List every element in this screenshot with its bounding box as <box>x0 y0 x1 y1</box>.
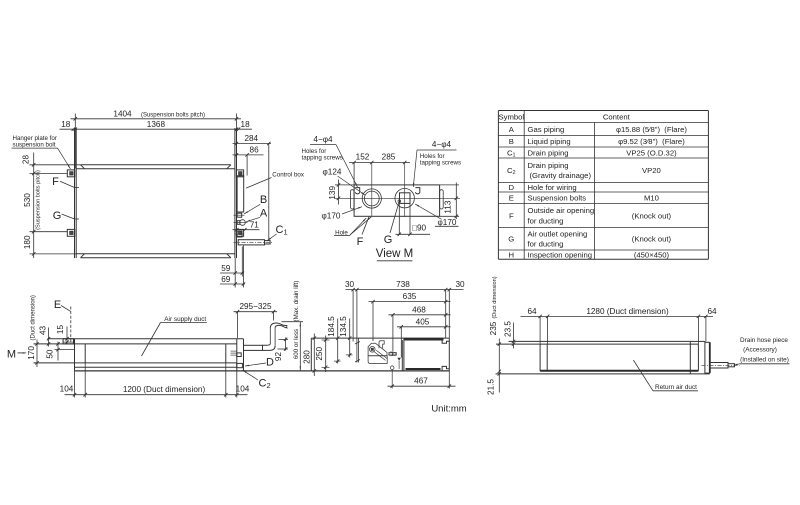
svg-text:23.5: 23.5 <box>504 321 513 337</box>
dim 30 738 30 top <box>346 289 464 291</box>
drain outlet circle bottom <box>390 366 394 370</box>
svg-text:468: 468 <box>412 305 426 314</box>
dim 92 <box>285 338 287 351</box>
svg-text:F: F <box>357 236 364 248</box>
svg-text:Liquid piping: Liquid piping <box>528 137 571 146</box>
dim 284 <box>233 143 272 145</box>
dim 152 285 <box>349 162 410 164</box>
dim 64 1280 64 <box>521 315 714 317</box>
svg-text:Control box: Control box <box>272 172 305 179</box>
dim 170 <box>36 340 38 368</box>
svg-text:284: 284 <box>244 134 258 143</box>
svg-text:28: 28 <box>22 155 31 165</box>
vertical center line G <box>404 163 406 218</box>
hanger plate top-right <box>236 170 243 177</box>
svg-text:φ124: φ124 <box>323 168 342 177</box>
right view end section <box>689 341 691 374</box>
dim 71 <box>233 229 260 231</box>
drain pipe C1 <box>238 240 264 245</box>
svg-text:A: A <box>260 207 268 219</box>
pipe fittings circles <box>389 352 393 356</box>
suspension bolt E dashed <box>70 307 72 344</box>
svg-text:G: G <box>53 210 62 222</box>
svg-text:(Max. drain lift): (Max. drain lift) <box>293 281 300 322</box>
svg-text:Hole for wiring: Hole for wiring <box>528 183 577 192</box>
dim 43 <box>48 328 50 347</box>
svg-text:(Accessory): (Accessory) <box>743 347 777 354</box>
symbol content table <box>498 110 708 112</box>
svg-text:φ9.52 (3∕8") (Flare): φ9.52 (3∕8") (Flare) <box>618 137 685 146</box>
svg-text:4−φ4: 4−φ4 <box>432 140 452 149</box>
fitting below A <box>237 231 242 237</box>
svg-text:64: 64 <box>707 307 717 316</box>
svg-text:235: 235 <box>489 321 498 335</box>
drain hose vertical pipe <box>269 328 271 344</box>
dim 113 <box>455 183 457 220</box>
end view outline <box>310 338 312 371</box>
diagonal drain pipe <box>376 350 387 359</box>
svg-text:134.5: 134.5 <box>339 316 348 337</box>
svg-text:Content: Content <box>603 113 631 122</box>
svg-text:Return air duct: Return air duct <box>655 384 697 391</box>
svg-text:E: E <box>509 194 514 203</box>
dim 280 <box>313 334 315 377</box>
dim 295-325 <box>234 311 278 313</box>
svg-text:Drain hose piece: Drain hose piece <box>740 337 788 344</box>
front view left edge <box>74 339 76 371</box>
svg-text:for ducting: for ducting <box>528 240 564 249</box>
svg-text:E: E <box>54 299 61 311</box>
svg-text:(Knock out): (Knock out) <box>632 235 672 244</box>
svg-text:280: 280 <box>303 350 312 364</box>
svg-text:43: 43 <box>39 326 48 336</box>
svg-text:64: 64 <box>527 307 537 316</box>
svg-text:G: G <box>508 235 514 244</box>
dim 184.5 <box>337 319 339 364</box>
air supply duct opening bottom <box>34 362 237 364</box>
svg-text:(Duct dimension): (Duct dimension) <box>492 276 498 318</box>
right view unit bottom line <box>496 373 710 375</box>
dim 139 <box>338 180 340 205</box>
pipe A gas <box>240 220 246 226</box>
svg-text:Symbol: Symbol <box>498 113 524 122</box>
svg-text:(Suspension bolts pitch): (Suspension bolts pitch) <box>35 170 41 230</box>
svg-text:tapping screws: tapping screws <box>302 154 343 161</box>
svg-text:tapping screws: tapping screws <box>420 159 461 166</box>
svg-text:180: 180 <box>23 235 32 249</box>
dim 1404 suspension bolts pitch <box>71 118 242 120</box>
dim 15 <box>66 327 68 345</box>
svg-text:1200 (Duct dimension): 1200 (Duct dimension) <box>123 385 206 394</box>
dim 18 1368 18 <box>60 128 253 130</box>
dim 104 1200 104 bottom <box>65 394 248 396</box>
svg-text:B: B <box>509 137 514 146</box>
end view right bracket bottom <box>442 366 449 371</box>
svg-text:30: 30 <box>345 280 355 289</box>
center line through knockouts <box>335 197 460 199</box>
svg-text:285: 285 <box>382 153 396 162</box>
svg-text:170: 170 <box>27 346 36 360</box>
right slot bracket <box>440 190 444 209</box>
svg-text:M10: M10 <box>644 194 659 203</box>
shared bottom line of unit <box>75 370 450 372</box>
drain pump assembly <box>368 343 387 356</box>
front view unit top line <box>48 338 244 340</box>
svg-text:□90: □90 <box>412 224 426 233</box>
svg-text:69: 69 <box>221 275 231 284</box>
svg-text:D: D <box>509 183 515 192</box>
svg-text:104: 104 <box>236 385 250 394</box>
svg-text:Gas piping: Gas piping <box>528 125 565 134</box>
connections bay right edge <box>243 339 245 371</box>
svg-text:50: 50 <box>46 349 55 359</box>
svg-text:21.5: 21.5 <box>487 379 496 395</box>
svg-text:Air outlet opening: Air outlet opening <box>528 229 588 238</box>
svg-text:15: 15 <box>56 325 65 335</box>
hanger plate bottom-right <box>236 229 243 236</box>
body right edge <box>234 128 236 258</box>
svg-text:φ15.88 (5∕8") (Flare): φ15.88 (5∕8") (Flare) <box>616 125 687 134</box>
svg-text:18: 18 <box>241 120 251 129</box>
svg-text:for ducting: for ducting <box>528 216 564 225</box>
svg-text:184.5: 184.5 <box>327 316 336 337</box>
svg-text:152: 152 <box>356 153 370 162</box>
svg-text:A: A <box>509 125 515 134</box>
pump flag fitting <box>379 341 384 349</box>
front view right edge <box>236 339 238 371</box>
vertical center line F <box>371 163 373 217</box>
svg-text:4−φ4: 4−φ4 <box>313 135 333 144</box>
svg-text:Unit:mm: Unit:mm <box>431 404 466 415</box>
svg-text:φ170: φ170 <box>438 218 457 227</box>
tapping screw hook near F <box>355 188 359 194</box>
front view flange line / duct top <box>34 343 237 345</box>
left slot bracket <box>351 190 355 209</box>
return duct thick bottom <box>540 370 698 372</box>
svg-text:738: 738 <box>396 280 410 289</box>
knockout G circle phi170 and square 90 <box>395 189 414 208</box>
svg-text:M: M <box>7 349 16 361</box>
valve triangle <box>397 358 401 361</box>
svg-text:250: 250 <box>315 347 324 361</box>
drain hose top curve <box>270 323 287 328</box>
svg-text:1280 (Duct dimension): 1280 (Duct dimension) <box>586 307 669 316</box>
svg-text:139: 139 <box>328 186 337 200</box>
svg-text:530: 530 <box>23 193 32 207</box>
svg-text:D: D <box>266 357 274 369</box>
svg-text:View M: View M <box>376 248 414 260</box>
svg-text:VP25 (O.D.32): VP25 (O.D.32) <box>626 149 677 158</box>
svg-text:H: H <box>509 251 515 260</box>
svg-text:(Duct dimension): (Duct dimension) <box>31 295 37 340</box>
svg-text:104: 104 <box>60 385 74 394</box>
svg-text:Outside air opening: Outside air opening <box>528 206 595 215</box>
dim 405 <box>397 326 451 328</box>
left dim column 28 530 180 <box>33 153 35 259</box>
svg-text:405: 405 <box>416 317 430 326</box>
return air duct box <box>539 344 541 371</box>
svg-text:(450×450): (450×450) <box>634 251 670 260</box>
svg-text:86: 86 <box>250 146 260 155</box>
svg-text:467: 467 <box>414 377 428 386</box>
svg-text:φ170: φ170 <box>322 212 341 221</box>
svg-text:Air supply duct: Air supply duct <box>164 316 206 323</box>
dim 50 <box>57 342 59 361</box>
svg-text:VP20: VP20 <box>642 166 661 175</box>
drain pan under pump <box>368 356 387 364</box>
svg-text:59: 59 <box>221 264 231 273</box>
View M outline <box>354 185 440 216</box>
body left edge <box>74 128 76 258</box>
svg-text:635: 635 <box>403 292 417 301</box>
svg-text:600 or less: 600 or less <box>293 329 300 359</box>
dim 635 <box>369 301 451 303</box>
drain hose piece pipe <box>710 363 728 369</box>
end view thick top right segment <box>404 338 444 341</box>
svg-text:F: F <box>509 212 514 221</box>
svg-text:(Knock out): (Knock out) <box>632 212 672 221</box>
knockout F circles phi170 phi124 <box>362 189 381 208</box>
svg-text:1404: 1404 <box>113 110 132 119</box>
hanger plate bottom-left <box>67 229 74 236</box>
dim 86 <box>233 154 264 156</box>
svg-text:92: 92 <box>274 352 283 362</box>
svg-text:295−325: 295−325 <box>239 302 272 311</box>
dim 468 <box>389 314 451 316</box>
tapping screw hook near G <box>415 188 419 194</box>
dim 600 or less max drain lift <box>282 321 304 323</box>
dim square 90 <box>396 233 431 235</box>
dim 467 <box>388 385 456 387</box>
svg-text:G: G <box>384 234 393 246</box>
duct opening left <box>84 344 86 363</box>
dim 23.5 <box>513 323 515 349</box>
svg-text:18: 18 <box>61 120 71 129</box>
dim 250 <box>325 336 327 373</box>
dim 235 duct dimension <box>498 339 500 393</box>
right view duct top line <box>496 343 698 345</box>
svg-text:Inspection opening: Inspection opening <box>528 251 593 260</box>
svg-text:Suspension bolts: Suspension bolts <box>528 194 587 203</box>
svg-text:B: B <box>260 194 267 206</box>
svg-text:(Installed on site): (Installed on site) <box>740 357 789 364</box>
right view unit top line <box>509 340 691 342</box>
suspension bolt lines end view <box>356 290 358 363</box>
svg-text:Drain piping: Drain piping <box>528 161 569 170</box>
svg-text:suspension bolt: suspension bolt <box>13 142 56 149</box>
hanger plate front left <box>63 339 73 344</box>
svg-text:(Gravity drainage): (Gravity drainage) <box>530 171 592 180</box>
body top flange <box>81 164 231 166</box>
dims 59 69 <box>234 258 236 287</box>
svg-text:1368: 1368 <box>147 120 166 129</box>
svg-text:113: 113 <box>443 200 452 213</box>
svg-text:F: F <box>52 176 59 188</box>
drain pipe C2 horizontal with hose <box>244 345 263 350</box>
front view inner bottom line <box>75 366 237 368</box>
control box <box>237 176 244 212</box>
return duct box in end view <box>401 340 403 371</box>
svg-text:Drain piping: Drain piping <box>528 149 569 158</box>
dim 134.5 <box>349 319 351 358</box>
duct opening right <box>225 344 227 363</box>
svg-text:(Suspension bolts pitch): (Suspension bolts pitch) <box>141 113 205 119</box>
hanger plate top-left <box>67 170 74 177</box>
end view right bracket top <box>442 339 449 343</box>
small fittings on right edge D and C2 <box>237 353 241 357</box>
body bottom flange <box>76 253 235 255</box>
svg-text:30: 30 <box>455 280 465 289</box>
svg-text:71: 71 <box>250 221 260 230</box>
pipe B liquid <box>237 213 242 217</box>
